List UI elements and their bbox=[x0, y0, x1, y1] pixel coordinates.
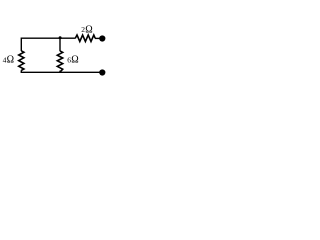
resistor R2 6ohm (middle vertical zigzag) bbox=[57, 51, 62, 72]
svg-text:Ω: Ω bbox=[71, 55, 78, 66]
terminal node B (bottom right) bbox=[99, 69, 105, 75]
wire left vertical upper bbox=[20, 38, 22, 52]
wire mid vertical lower bbox=[59, 71, 61, 73]
terminal node A (top right) bbox=[99, 35, 105, 41]
wire top horizontal bbox=[21, 37, 75, 39]
wire bottom horizontal bbox=[21, 71, 100, 73]
wire left vertical lower bbox=[20, 70, 22, 72]
resistor R1 4ohm (left vertical zigzag) bbox=[19, 51, 24, 71]
resistor R3 2ohm (top horizontal zigzag) bbox=[75, 35, 95, 42]
svg-text:Ω: Ω bbox=[7, 55, 14, 66]
wire mid vertical upper bbox=[59, 38, 61, 51]
svg-text:Ω: Ω bbox=[85, 24, 92, 35]
node junction dot top of R2 bbox=[59, 36, 62, 39]
wire top right stub bbox=[95, 37, 100, 39]
